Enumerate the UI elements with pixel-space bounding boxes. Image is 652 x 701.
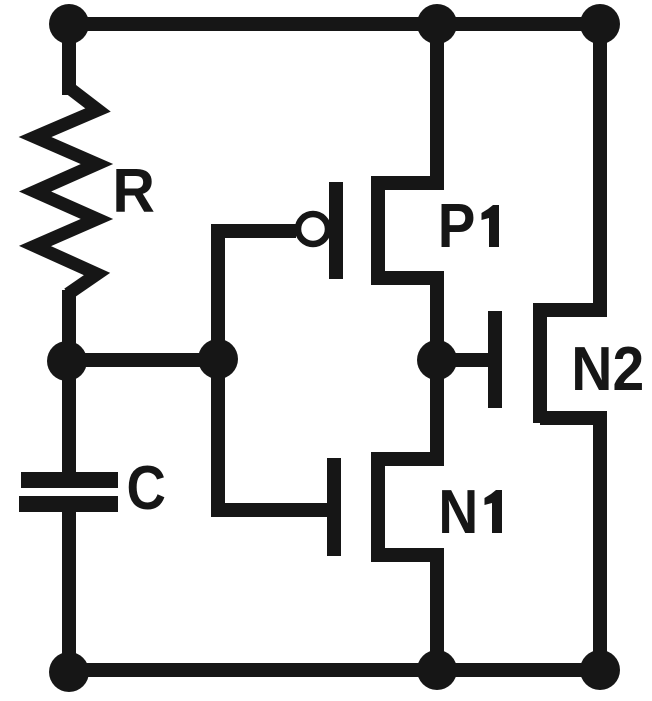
transistor P1 gate bubble: [298, 214, 328, 244]
label N2: [571, 334, 644, 404]
wire to P1 gate bubble: [211, 224, 296, 238]
label R: [112, 156, 155, 226]
wire to N1 gate: [211, 503, 328, 517]
transistor N2 channel bar: [533, 303, 547, 423]
node B (gate junction): [198, 339, 238, 379]
node A (RC junction): [47, 341, 87, 381]
wire output node to N2 gate: [437, 353, 488, 367]
transistor N1 gate bar: [327, 458, 341, 556]
wire gate node B down: [211, 353, 225, 517]
node output: [417, 340, 457, 380]
node bottom-left: [49, 652, 89, 692]
wire gate node B up: [211, 224, 225, 367]
transistor N2 source arm: [540, 411, 607, 425]
node bottom-right: [580, 650, 620, 690]
transistor N1 channel bar: [371, 452, 385, 562]
wire output node to N1 drain: [430, 360, 444, 466]
wire node A to capacitor: [62, 361, 76, 476]
node top-left: [49, 4, 89, 44]
wire resistor to node A: [62, 290, 76, 361]
wire N2 source to bottom-right node: [593, 411, 607, 670]
node top-center: [417, 4, 457, 44]
capacitor C bottom plate: [19, 496, 118, 512]
node bottom-center: [417, 650, 457, 690]
svg-text:N: N: [438, 478, 478, 547]
wire top-left node to resistor: [62, 24, 76, 95]
wire N1 source to bottom-center node: [430, 548, 444, 670]
label N1 digit 1: [485, 490, 503, 533]
wire capacitor to bottom-left node: [62, 504, 76, 671]
label P1 letter P: [438, 191, 476, 261]
wire top rail (VDD): [69, 17, 600, 31]
transistor N2 gate bar: [488, 311, 502, 408]
svg-text:P: P: [438, 191, 476, 261]
resistor R: [35, 87, 98, 294]
wire top-right node to N2 drain: [593, 24, 607, 317]
transistor P1 gate bar: [329, 182, 343, 279]
svg-text:R: R: [112, 156, 155, 226]
wire P1 drain to output node: [430, 271, 444, 360]
svg-text:C: C: [127, 454, 166, 523]
label P1 digit 1: [482, 205, 500, 247]
transistor N1 source arm: [378, 548, 444, 562]
wire VDD to P1 source: [430, 24, 444, 190]
transistor P1 drain arm: [378, 271, 444, 285]
capacitor C top plate: [21, 472, 118, 488]
transistor P1 channel bar: [371, 176, 385, 285]
label C: [127, 454, 166, 523]
wire bottom rail (GND): [69, 663, 600, 677]
transistor P1 source arm: [378, 176, 444, 190]
node top-right: [580, 4, 620, 44]
wire node A to gate node B: [67, 353, 218, 367]
transistor N1 drain arm: [378, 452, 444, 466]
label N1 letter N: [438, 478, 478, 547]
transistor N2 drain arm: [540, 303, 607, 317]
svg-text:N2: N2: [571, 334, 644, 404]
